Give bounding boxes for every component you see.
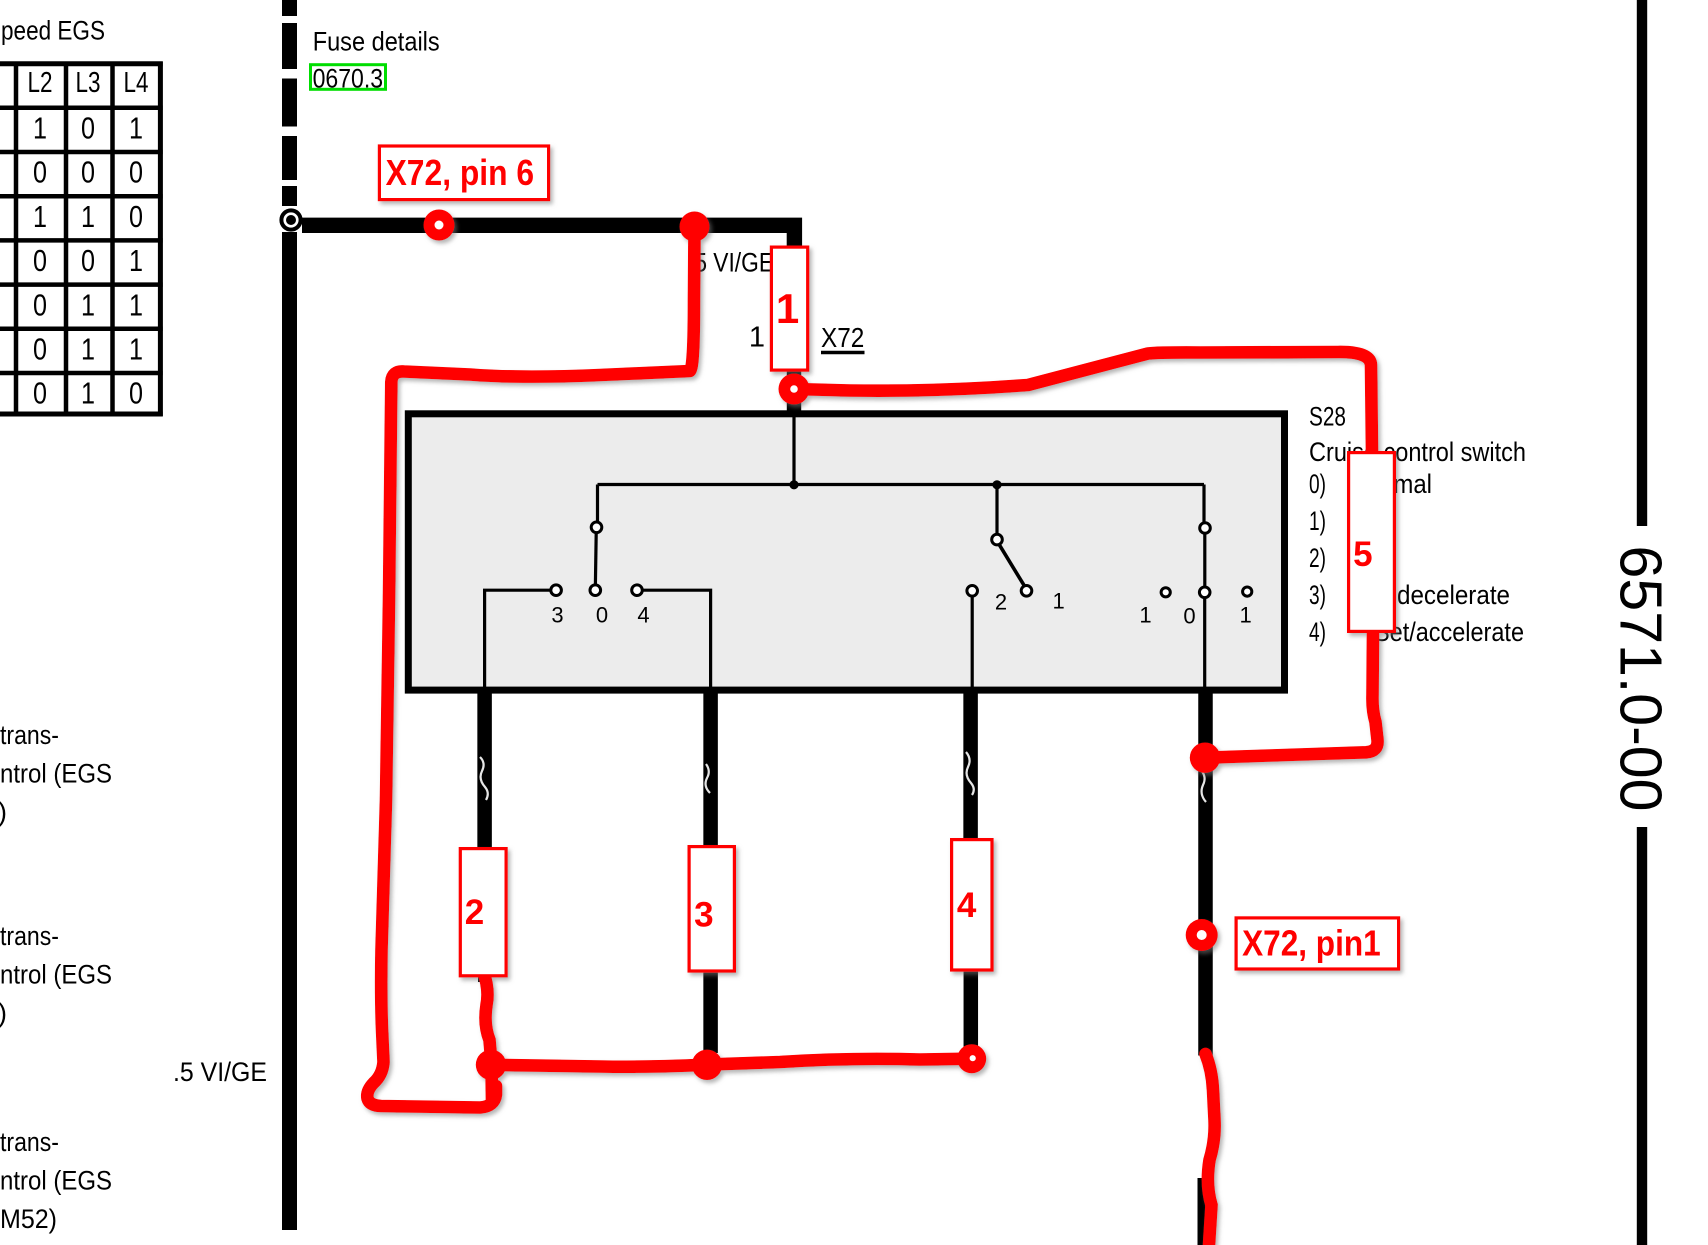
svg-text:1: 1 [129, 287, 143, 322]
svg-text:1: 1 [33, 111, 47, 146]
svg-text:0: 0 [129, 155, 143, 190]
red label box 2 [460, 849, 506, 976]
svg-text:1: 1 [129, 332, 143, 367]
red label box 1 (connector X72 pin) [771, 247, 807, 370]
wire 4 lower segment [703, 973, 718, 1053]
connector node circle on left margin [281, 210, 300, 229]
wire contact 4 to output [643, 590, 711, 688]
red marker dot: bottom bus middle junction [692, 1050, 722, 1080]
svg-text:0: 0 [33, 332, 47, 367]
svg-text:Set/accelerate: Set/accelerate [1374, 617, 1524, 647]
svg-text:1): 1) [1309, 506, 1326, 536]
middle switch blade (pointing to 1) [999, 545, 1024, 586]
svg-text:0: 0 [129, 199, 143, 234]
wire to X72 pin 1 bottom piece [1198, 1178, 1212, 1245]
svg-text:0: 0 [33, 243, 47, 278]
middle contact 2 circle [967, 586, 978, 597]
svg-text:X72, pin1: X72, pin1 [1242, 922, 1381, 963]
svg-text:1: 1 [81, 287, 95, 322]
svg-text:trans-: trans- [0, 1127, 59, 1157]
svg-text:0: 0 [129, 376, 143, 411]
red highlight: continuation below wire end (bottom right) [1206, 1054, 1215, 1245]
svg-text:.5 VI/GE: .5 VI/GE [688, 248, 774, 278]
right margin rule (top piece) [1637, 0, 1647, 526]
svg-text:L4: L4 [124, 67, 149, 99]
svg-text:L2: L2 [28, 67, 53, 99]
fuse number green box 0670.3 [311, 63, 386, 93]
svg-text:4): 4) [1309, 617, 1326, 647]
svg-text:Cruise control switch: Cruise control switch [1309, 437, 1526, 467]
internal bus wire [598, 483, 1205, 486]
svg-text:0: 0 [33, 155, 47, 190]
red label box 3 [689, 847, 734, 971]
svg-text:0: 0 [1183, 604, 1195, 629]
table: 5-speed EGS logic table grid [0, 62, 163, 417]
red label box 4 [952, 840, 992, 970]
red label box: X72, pin1 [1236, 918, 1399, 969]
svg-text:1: 1 [1052, 589, 1064, 614]
red marker dot: X72 pin 1 (with center) [1186, 919, 1218, 951]
table header L2 L3 L4 [28, 67, 149, 99]
svg-text:0: 0 [81, 155, 95, 190]
svg-text:0: 0 [81, 111, 95, 146]
svg-text:4: 4 [957, 886, 977, 925]
right margin rule (bottom piece) [1637, 827, 1647, 1245]
svg-text:0): 0) [1309, 469, 1326, 499]
svg-text:X72, pin 6: X72, pin 6 [386, 152, 534, 193]
svg-text:): ) [0, 797, 7, 827]
table data digits [33, 111, 143, 411]
svg-text:0: 0 [81, 243, 95, 278]
red highlight: bottom bus between junctions [491, 1059, 972, 1067]
svg-text:3: 3 [694, 896, 713, 935]
wire bus to middle common contact [995, 485, 998, 534]
left margin wire (solid) [282, 232, 297, 1230]
left common contact circle [591, 522, 602, 533]
wire contact 3 to output [485, 590, 551, 688]
svg-text:1: 1 [81, 332, 95, 367]
red label box: X72, pin 6 [379, 146, 548, 200]
svg-text:4: 4 [637, 603, 649, 628]
svg-text:1: 1 [1239, 603, 1251, 628]
svg-text:1: 1 [749, 322, 765, 354]
red marker dot: junction at S28 output right [1190, 743, 1220, 773]
left margin dashed wire (top) [282, 0, 297, 206]
svg-text:L3: L3 [76, 67, 101, 99]
right contact 1 circle (right) [1243, 587, 1252, 596]
svg-text:X72: X72 [821, 322, 864, 353]
svg-text:M52): M52) [0, 1204, 57, 1234]
red marker dot: junction of branch [680, 212, 710, 242]
red highlight: below label box 5 down and left to wire [1205, 633, 1378, 758]
svg-text:0670.3: 0670.3 [313, 63, 384, 93]
left switch blade wire (position 0) [594, 533, 598, 585]
wire 2 lower segment [964, 972, 979, 1048]
svg-text:decelerate: decelerate [1397, 580, 1510, 610]
red marker dot: node below connector 1 (with center) [779, 374, 810, 405]
svg-text:S28: S28 [1309, 402, 1346, 432]
wire bus to left common contact [596, 485, 599, 522]
red marker dot: bottom bus right junction (with center) [957, 1044, 986, 1073]
wire bus corner to right common contact [1202, 485, 1205, 523]
output wire from contact 4 [703, 688, 718, 845]
svg-text:): ) [0, 998, 7, 1028]
svg-text:1: 1 [776, 285, 799, 332]
svg-text:2): 2) [1309, 543, 1326, 573]
red marker dot: X72 pin 6 (with center) [424, 210, 455, 241]
S28 cruise control switch body [408, 414, 1284, 690]
output wire from contact 2 [963, 688, 978, 838]
red label box 5 [1349, 453, 1395, 632]
red marker dot: bottom bus left junction [476, 1050, 506, 1080]
output wire from contact 3 (S28 pin) [477, 688, 492, 847]
wire right contact 0 to output [1203, 598, 1206, 688]
wire from pin 1 into switch [792, 414, 795, 485]
svg-text:1: 1 [129, 111, 143, 146]
middle contact 1 circle [1021, 586, 1032, 597]
svg-text:1: 1 [81, 199, 95, 234]
wire contact 2 to output [971, 596, 974, 688]
svg-text:1: 1 [33, 199, 47, 234]
svg-text:ntrol (EGS: ntrol (EGS [0, 960, 112, 990]
svg-text:.5 VI/GE: .5 VI/GE [173, 1057, 267, 1087]
small white marker scuffs on wires [480, 752, 1206, 802]
svg-text:3): 3) [1309, 580, 1326, 610]
svg-text:trans-: trans- [0, 921, 59, 951]
svg-text:peed EGS: peed EGS [1, 16, 105, 46]
junction node on bus (left) [789, 480, 798, 489]
svg-text:0: 0 [33, 376, 47, 411]
svg-text:1: 1 [1139, 603, 1151, 628]
red highlight: from X72 pin 1 node to the right and down to S28 [794, 352, 1372, 451]
svg-text:ntrol (EGS: ntrol (EGS [0, 759, 112, 789]
svg-text:trans-: trans- [0, 720, 59, 750]
svg-text:2: 2 [995, 590, 1007, 615]
svg-text:3: 3 [551, 603, 563, 628]
svg-text:Fuse details: Fuse details [313, 27, 440, 57]
red highlight: branch wire down from pin-6 feed [367, 226, 694, 1108]
svg-text:6571.0-00: 6571.0-00 [1608, 546, 1674, 812]
right contact 0 circle [1199, 587, 1210, 598]
right switch blade wire (position 0) [1203, 534, 1206, 587]
output wire from contact 0 to X72 pin 1 [1198, 688, 1213, 1056]
right common contact circle [1200, 523, 1211, 534]
junction node on bus (right) [992, 480, 1001, 489]
left contact 0 circle [590, 585, 601, 596]
left contact 3 circle [551, 585, 562, 596]
svg-text:2: 2 [465, 893, 484, 932]
svg-text:0: 0 [596, 603, 608, 628]
stub of wire 3 below label box 2 [478, 975, 491, 982]
red highlight: wire from label 2 down to junction [484, 972, 493, 1102]
svg-text:ntrol (EGS: ntrol (EGS [0, 1166, 112, 1196]
white centers of marker dots [435, 221, 444, 230]
svg-text:1: 1 [81, 376, 95, 411]
wire from X72 pin 6 (horizontal) with corner down to connector 1 [302, 225, 794, 247]
svg-text:1: 1 [129, 243, 143, 278]
middle common contact circle [992, 534, 1003, 545]
svg-text:5: 5 [1353, 535, 1372, 574]
right contact 1 circle (left) [1161, 588, 1170, 597]
left contact 4 circle [632, 585, 643, 596]
svg-text:0: 0 [33, 287, 47, 322]
wire stub between connector box 1 and X72 pin 1 node [787, 370, 801, 413]
